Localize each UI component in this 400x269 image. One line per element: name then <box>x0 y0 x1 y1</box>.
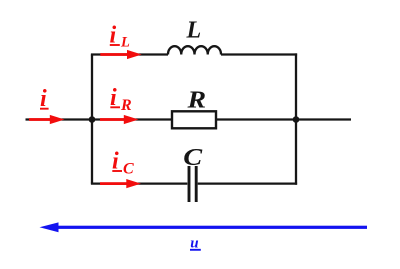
capacitor C <box>189 166 196 202</box>
svg-text:L: L <box>186 18 202 44</box>
voltage arrow u (pointing left) <box>40 222 368 232</box>
svg-text:L: L <box>120 34 130 50</box>
current arrow i <box>29 115 65 124</box>
wire: right vertical bus <box>295 53 297 184</box>
wire: top branch left segment <box>91 53 168 55</box>
svg-text:C: C <box>123 160 134 177</box>
node A junction dot <box>89 116 96 123</box>
wire: left vertical branch bus <box>91 55 93 184</box>
current arrow i_R <box>100 115 139 124</box>
current arrow i_L <box>100 50 141 59</box>
wire: left feed into node A <box>26 118 93 120</box>
wire: bottom branch right segment <box>198 182 297 184</box>
svg-text:C: C <box>183 144 202 171</box>
current arrow i_C <box>100 179 141 188</box>
inductor L <box>168 46 221 54</box>
wire: middle branch node A to resistor <box>92 118 172 120</box>
wire: bottom branch left segment <box>91 182 187 184</box>
wire: resistor to node B and beyond <box>216 118 351 120</box>
node B junction dot <box>293 116 300 123</box>
wire: top branch right segment <box>221 53 297 55</box>
svg-text:R: R <box>186 86 206 113</box>
svg-text:R: R <box>120 97 132 114</box>
resistor R <box>172 111 216 128</box>
